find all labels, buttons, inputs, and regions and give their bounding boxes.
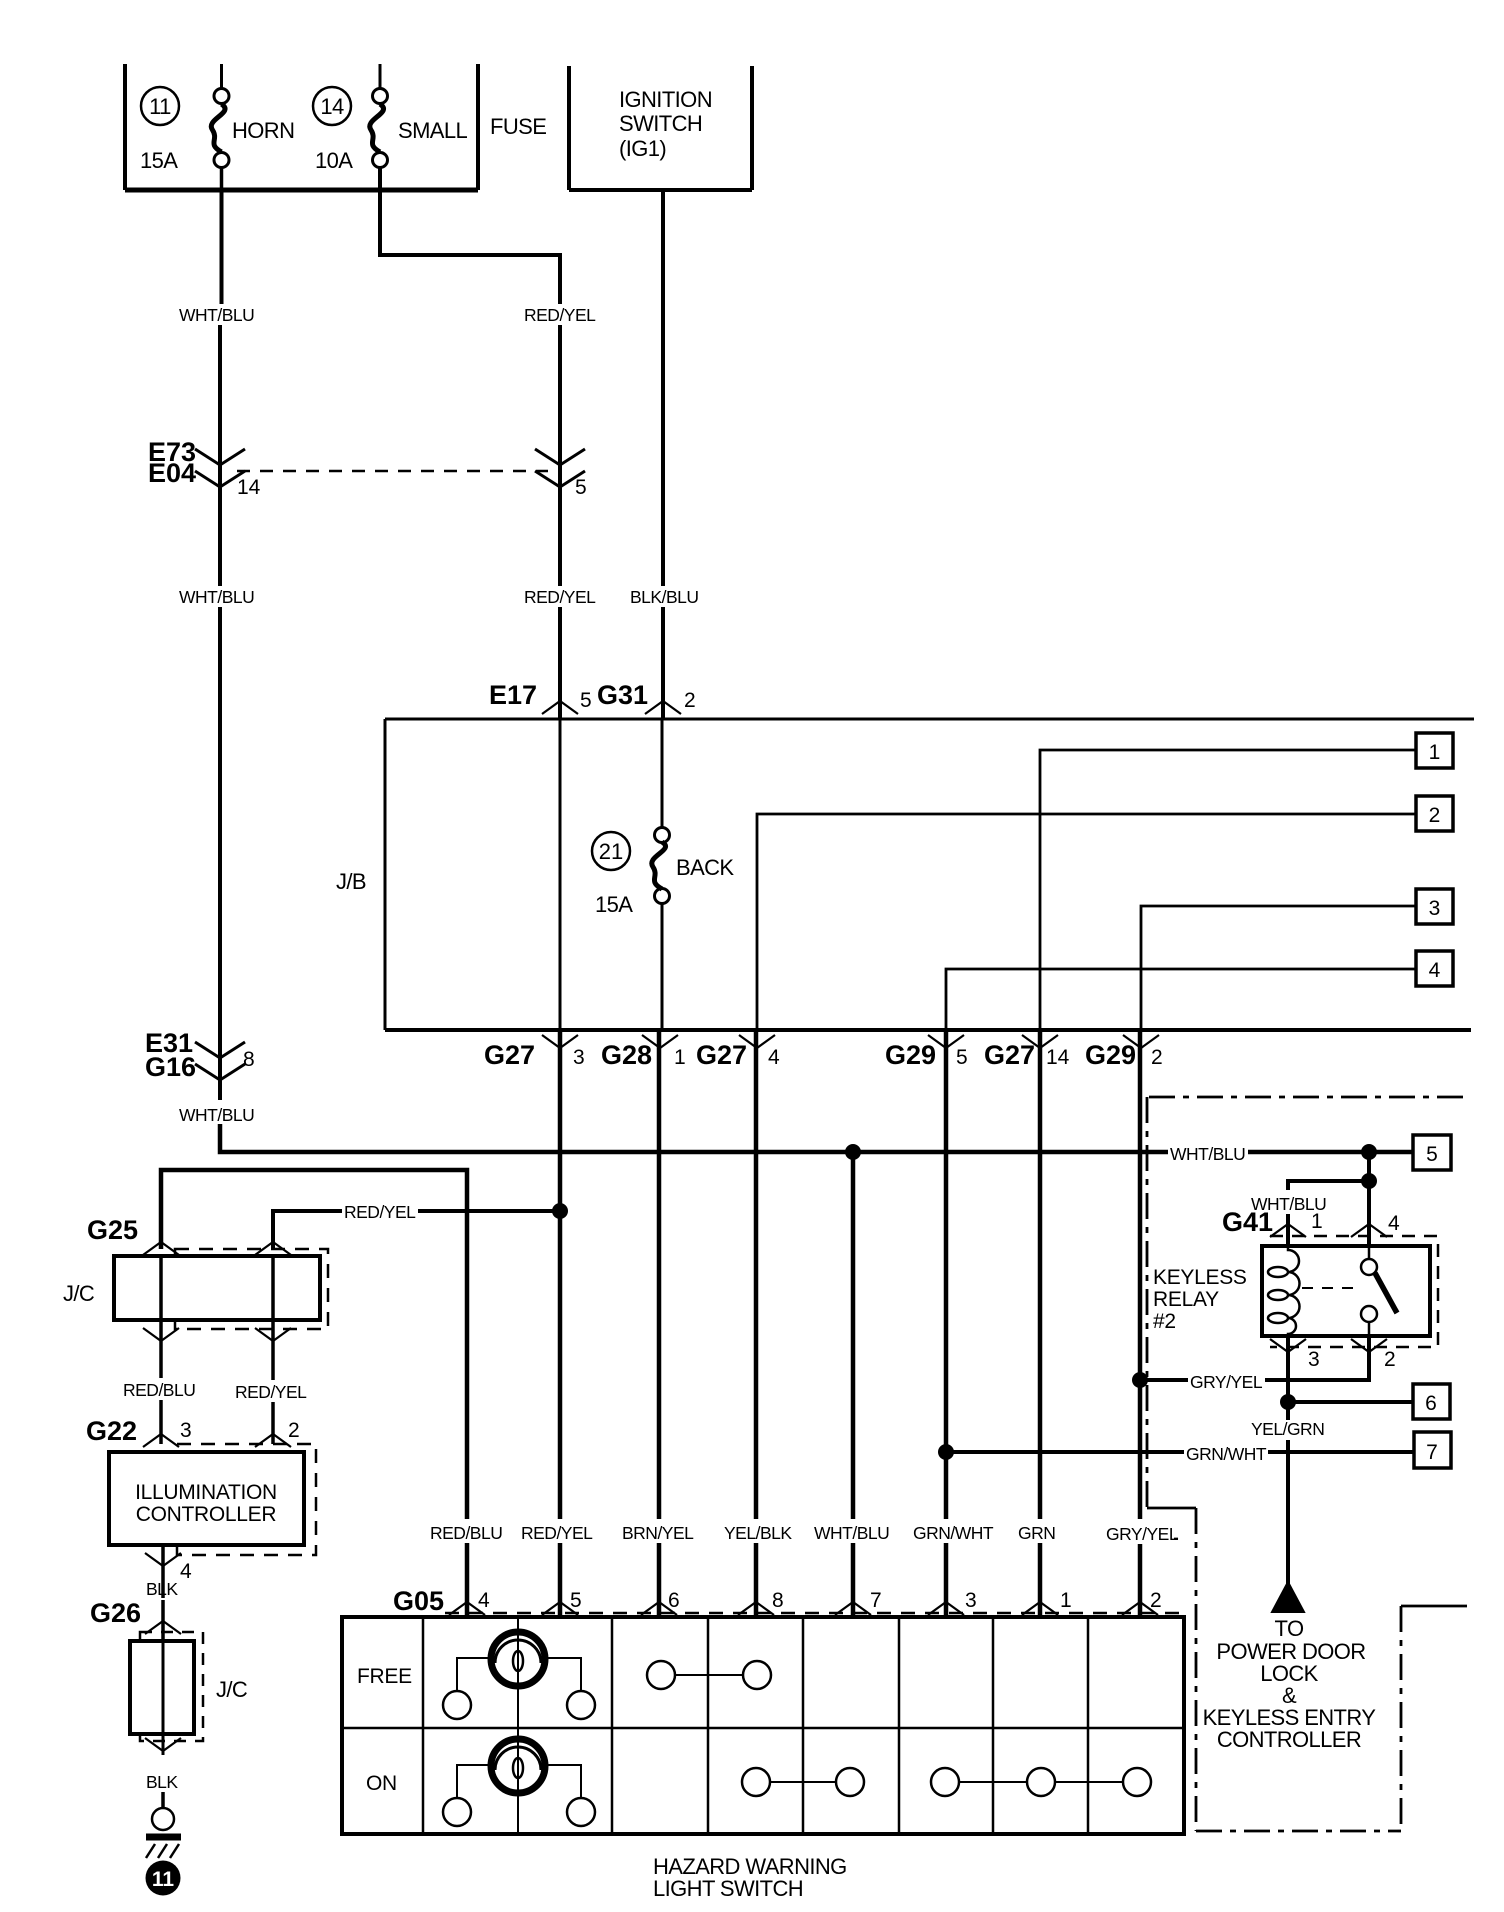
dashed boundary power-door region right — [1400, 1606, 1403, 1831]
svg-text:ON: ON — [366, 1772, 397, 1795]
connector G05 pin 4 chevron — [449, 1602, 485, 1615]
connector G31 chevron — [645, 701, 681, 714]
svg-text:RED/BLU: RED/BLU — [430, 1523, 502, 1543]
svg-text:SWITCH: SWITCH — [619, 111, 702, 136]
G26 J/C dashed box — [140, 1632, 203, 1741]
svg-text:GRY/YEL: GRY/YEL — [1106, 1524, 1179, 1544]
svg-text:G28: G28 — [601, 1040, 652, 1070]
wire RED/YEL J/B to G05 pin 5 — [558, 1030, 563, 1617]
svg-text:10A: 10A — [315, 148, 353, 173]
SECTION-LEFT — [560, 1030, 1140, 1617]
G05 column divider 7 — [1087, 1617, 1090, 1834]
svg-text:BLK: BLK — [146, 1579, 178, 1599]
G25 J/C dashed box — [175, 1249, 328, 1329]
svg-text:11: 11 — [149, 94, 171, 119]
wire loop to G25 J/C and G05 pin 4 — [161, 1170, 467, 1617]
svg-text:7: 7 — [870, 1589, 882, 1612]
svg-text:1: 1 — [1429, 741, 1441, 764]
J/B box top edge — [385, 718, 1474, 721]
SECTION-G05 — [1147, 1097, 1467, 1831]
svg-text:2: 2 — [684, 689, 696, 712]
page reference circled 11 (filled) — [146, 1861, 181, 1896]
label TO POWER DOOR LOCK & KEYLESS ENTRY CONTROLLER — [1203, 1616, 1377, 1752]
svg-text:GRN/WHT: GRN/WHT — [913, 1523, 994, 1543]
connector G27 pin 3 chevron — [542, 1035, 578, 1048]
svg-text:TO: TO — [1275, 1616, 1304, 1641]
svg-text:11: 11 — [152, 1868, 175, 1891]
svg-text:15A: 15A — [595, 892, 633, 917]
connector G29 pin 2 chevron — [1123, 1035, 1159, 1048]
connector G41 pin 2 chevron — [1351, 1339, 1387, 1352]
svg-text:BACK: BACK — [676, 855, 734, 880]
svg-text:G16: G16 — [145, 1052, 196, 1082]
svg-text:IGNITION: IGNITION — [619, 87, 712, 112]
svg-text:J/C: J/C — [216, 1677, 248, 1702]
wire GRN J/B to G05 pin 1 — [1038, 1030, 1043, 1617]
connector G25 chevron left — [143, 1242, 179, 1255]
wire RED/YEL branch to G25 J/C — [273, 1211, 560, 1249]
terminal box 7 — [1414, 1432, 1451, 1468]
label GRN/WHT (branch) — [1184, 1440, 1268, 1464]
svg-text:3: 3 — [965, 1589, 977, 1612]
terminal box 1 — [1416, 733, 1453, 768]
dashed boundary keyless region left — [1146, 1097, 1149, 1508]
wire to relay pin 4 — [1367, 1181, 1371, 1246]
svg-text:3: 3 — [180, 1419, 192, 1442]
G05 column divider 2 — [611, 1617, 614, 1834]
fuse box right edge — [476, 64, 480, 190]
svg-text:RED/YEL: RED/YEL — [524, 305, 596, 325]
label YEL/BLK (pin 8 wire) — [722, 1519, 798, 1543]
svg-text:G27: G27 — [984, 1040, 1035, 1070]
connector G41 pin 4 chevron — [1351, 1224, 1387, 1237]
switch contact FREE 6-8 — [647, 1661, 675, 1689]
label GRY/YEL (relay branch) — [1188, 1368, 1265, 1392]
svg-text:G31: G31 — [597, 680, 648, 710]
G25 J/C solid box — [114, 1256, 320, 1320]
connector G29 pin 5 chevron — [928, 1035, 964, 1048]
svg-text:FUSE: FUSE — [490, 114, 546, 139]
connector E73/E04 double chevron on WHT/BLU — [195, 449, 245, 487]
svg-text:G29: G29 — [885, 1040, 936, 1070]
svg-text:14: 14 — [1046, 1046, 1070, 1069]
label RED/YEL (pin 5 wire) — [519, 1519, 596, 1543]
svg-text:BRN/YEL: BRN/YEL — [622, 1523, 694, 1543]
svg-text:GRN: GRN — [1018, 1523, 1055, 1543]
terminal box 6 — [1413, 1384, 1450, 1419]
G05 row divider — [342, 1727, 1184, 1730]
wire inside J/B to terminal 1 — [1040, 750, 1416, 1030]
svg-text:CONTROLLER: CONTROLLER — [136, 1503, 277, 1526]
junction dot RED/YEL branch — [552, 1203, 568, 1219]
connector E17 chevron — [542, 701, 578, 714]
label RED/BLU (pin 4 wire) — [428, 1519, 506, 1543]
hazard switch G05 outer box — [342, 1617, 1184, 1834]
wire inside J/B to terminal 4 — [946, 969, 1416, 1030]
svg-text:YEL/GRN: YEL/GRN — [1251, 1419, 1324, 1439]
illumination controller solid box — [109, 1452, 304, 1545]
label GRY/YEL (pin 2 wire) — [1104, 1519, 1180, 1543]
G26 J/C solid box — [130, 1641, 194, 1734]
dashed boundary power-door region bottom — [1196, 1830, 1401, 1833]
svg-text:WHT/BLU: WHT/BLU — [814, 1523, 889, 1543]
wire from fuse 11 through box bottom — [220, 167, 224, 190]
label WHT/BLU (to terminal 5) — [1168, 1140, 1248, 1164]
svg-text:2: 2 — [1151, 1046, 1163, 1069]
svg-text:E17: E17 — [489, 680, 537, 710]
svg-text:G26: G26 — [90, 1598, 141, 1628]
circled 21 — [592, 832, 630, 870]
wire BLK to ground — [161, 1792, 165, 1808]
SECTION-TOP — [385, 719, 1474, 1030]
svg-text:3: 3 — [573, 1046, 585, 1069]
wire WHT/BLU down from junction — [1367, 1152, 1371, 1181]
circled 14 — [313, 87, 351, 125]
G05 column divider 6 — [992, 1617, 995, 1834]
chevron below G25 J/C right — [255, 1328, 291, 1341]
G05 column divider 4 — [802, 1617, 805, 1834]
wire BLK/BLU from ignition switch down — [661, 190, 665, 586]
dashed boundary keyless region top — [1149, 1096, 1467, 1099]
connector G05 pin 6 chevron — [641, 1602, 677, 1615]
svg-text:ILLUMINATION: ILLUMINATION — [135, 1481, 277, 1504]
fuse 14 SMALL 10A element — [370, 89, 388, 168]
svg-text:4: 4 — [478, 1589, 490, 1612]
connector G41 pin 3 chevron — [1270, 1339, 1306, 1352]
svg-text:2: 2 — [1150, 1589, 1162, 1612]
keyless relay dashed box — [1270, 1236, 1438, 1347]
connector G41 pin 1 chevron — [1270, 1224, 1306, 1237]
svg-text:5: 5 — [575, 476, 587, 499]
lamp circuit FREE row — [517, 1617, 519, 1728]
svg-text:G22: G22 — [86, 1416, 137, 1446]
connector G27 pin 4 chevron — [739, 1035, 775, 1048]
wire WHT/BLU down to G05 pin 7 — [851, 1152, 856, 1617]
svg-text:RED/YEL: RED/YEL — [235, 1382, 307, 1402]
svg-text:#2: #2 — [1153, 1310, 1176, 1333]
label RED/BLU — [121, 1378, 200, 1400]
wire BLK below illumination controller — [161, 1545, 165, 1598]
svg-text:5: 5 — [1426, 1143, 1438, 1166]
svg-text:G25: G25 — [87, 1215, 138, 1245]
chevron below G26 J/C — [145, 1738, 181, 1751]
connector G28 pin 1 chevron — [642, 1035, 678, 1048]
connector E31/G16 double chevron — [195, 1042, 245, 1080]
svg-text:CONTROLLER: CONTROLLER — [1217, 1727, 1361, 1752]
connector G05 pin 7 chevron — [835, 1602, 871, 1615]
svg-text:21: 21 — [599, 839, 623, 864]
svg-text:GRN/WHT: GRN/WHT — [1186, 1444, 1267, 1464]
illumination controller dashed box — [177, 1444, 316, 1555]
label WHT/BLU (relay) — [1249, 1190, 1329, 1214]
wire YEL/GRN down to arrow — [1286, 1440, 1290, 1584]
dashed boundary power-door region left — [1195, 1508, 1198, 1831]
dashed line along G05 top — [445, 1612, 1184, 1615]
fuse 11 HORN 15A element — [211, 89, 229, 168]
svg-text:E04: E04 — [148, 458, 196, 488]
svg-text:(IG1): (IG1) — [619, 136, 666, 161]
wire stub above fuse 14 — [379, 64, 382, 89]
connector G05 pin 5 chevron — [542, 1602, 578, 1615]
svg-text:YEL/BLK: YEL/BLK — [724, 1523, 792, 1543]
G05 column divider 5 — [898, 1617, 901, 1834]
lamp circuit ON row — [517, 1728, 519, 1834]
connector G05 pin 2 chevron — [1122, 1602, 1158, 1615]
svg-text:8: 8 — [772, 1589, 784, 1612]
wire through G26 J/C — [162, 1641, 165, 1755]
dashed boundary step — [1147, 1507, 1196, 1510]
svg-text:SMALL: SMALL — [398, 118, 468, 143]
svg-text:4: 4 — [1429, 959, 1441, 982]
label BRN/YEL (pin 6 wire) — [620, 1519, 697, 1543]
junction dot GRN/WHT — [938, 1444, 954, 1460]
svg-text:J/B: J/B — [336, 869, 366, 894]
svg-text:G27: G27 — [484, 1040, 535, 1070]
svg-text:4: 4 — [180, 1560, 192, 1583]
wire GRN/WHT to terminal 7 — [946, 1450, 1414, 1454]
arrow to power door lock — [1272, 1582, 1304, 1612]
dashed connector line E73/E04 — [237, 470, 548, 473]
svg-text:RED/YEL: RED/YEL — [524, 587, 596, 607]
wire BLK/BLU into fuse 21 — [661, 719, 664, 828]
fuse 21 BACK 15A element — [655, 828, 670, 843]
wire to terminal 6 — [1288, 1400, 1413, 1404]
wire below fuse 21 — [661, 903, 664, 1030]
junction dot WHT/BLU at terminal 5 — [1361, 1144, 1377, 1160]
label RED/YEL — [233, 1380, 311, 1402]
svg-text:7: 7 — [1426, 1441, 1438, 1464]
wire stub above fuse 11 — [220, 64, 223, 89]
terminal box 2 — [1416, 796, 1453, 831]
label WHT/BLU (pin 7 wire) — [812, 1519, 890, 1543]
wire relay pin 2 to GRY/YEL — [1140, 1336, 1369, 1380]
svg-text:4: 4 — [1388, 1212, 1400, 1235]
chevron below illumination controller — [145, 1553, 181, 1566]
wire YEL/BLK J/B to G05 pin 8 — [754, 1030, 759, 1617]
junction dot GRY/YEL — [1132, 1372, 1148, 1388]
connector G05 pin 1 chevron — [1022, 1602, 1058, 1615]
connector E73/E04 double chevron on RED/YEL — [535, 449, 585, 487]
svg-text:8: 8 — [243, 1048, 255, 1071]
wire relay pin 3 down — [1286, 1336, 1290, 1420]
svg-text:G27: G27 — [696, 1040, 747, 1070]
switch contact ON 8-7 — [742, 1768, 770, 1796]
svg-text:RED/YEL: RED/YEL — [344, 1202, 416, 1222]
connector G25 chevron right — [255, 1242, 291, 1255]
svg-text:3: 3 — [1429, 897, 1441, 920]
label GRN/WHT (pin 3 wire) — [911, 1519, 994, 1543]
lamp ON — [491, 1739, 545, 1793]
chevron below G25 J/C left — [143, 1328, 179, 1341]
svg-text:RED/BLU: RED/BLU — [123, 1380, 195, 1400]
switch contact ON 3-1-2 — [931, 1768, 959, 1796]
wire GRN/WHT J/B to G05 pin 3 — [944, 1030, 949, 1617]
svg-text:2: 2 — [1384, 1348, 1396, 1371]
wire to relay pin 1 — [1288, 1181, 1369, 1246]
J/B box bottom edge — [385, 1028, 1471, 1032]
connector G22 chevron right — [255, 1434, 291, 1447]
lamp FREE — [491, 1632, 545, 1686]
wire RED/YEL through G25 J/C down to G22 — [271, 1256, 275, 1444]
boundary power-door region top right — [1401, 1605, 1467, 1608]
svg-text:2: 2 — [288, 1419, 300, 1442]
svg-text:14: 14 — [237, 476, 261, 499]
svg-text:5: 5 — [580, 689, 592, 712]
G05 column divider 1 — [422, 1617, 425, 1834]
svg-text:5: 5 — [570, 1589, 582, 1612]
ignition switch box — [567, 66, 571, 190]
label GRY/YEL (to G05 pin 2) — [1106, 1520, 1179, 1544]
wire RED/BLU through G25 J/C down to G22 — [159, 1256, 163, 1444]
svg-text:14: 14 — [320, 94, 344, 119]
svg-text:6: 6 — [668, 1589, 680, 1612]
wire RED/YEL from fuse 14 down with corner to x=560 — [380, 167, 560, 304]
svg-text:1: 1 — [1060, 1589, 1072, 1612]
svg-text:4: 4 — [768, 1046, 780, 1069]
svg-text:RED/YEL: RED/YEL — [521, 1523, 593, 1543]
connector G05 pin 8 chevron — [738, 1602, 774, 1615]
svg-text:G05: G05 — [393, 1586, 444, 1616]
svg-text:2: 2 — [1429, 804, 1441, 827]
svg-text:J/C: J/C — [63, 1281, 95, 1306]
circled 11 — [141, 87, 179, 125]
svg-text:5: 5 — [956, 1046, 968, 1069]
svg-text:BLK: BLK — [146, 1772, 178, 1792]
wire WHT/BLU corner to horizontal run — [220, 1124, 1412, 1152]
svg-text:WHT/BLU: WHT/BLU — [1170, 1144, 1245, 1164]
connector G22 chevron left — [143, 1434, 179, 1447]
junction dot relay feed — [1361, 1173, 1377, 1189]
fuse box bottom edge — [125, 188, 478, 193]
svg-text:GRY/YEL: GRY/YEL — [1190, 1372, 1263, 1392]
svg-text:WHT/BLU: WHT/BLU — [179, 1105, 254, 1125]
label RED/YEL on branch — [342, 1198, 418, 1222]
svg-text:BLK/BLU: BLK/BLU — [630, 587, 698, 607]
relay coil — [1268, 1246, 1300, 1336]
svg-text:LIGHT SWITCH: LIGHT SWITCH — [653, 1876, 803, 1901]
terminal box 4 — [1416, 951, 1453, 986]
svg-text:FREE: FREE — [357, 1665, 412, 1688]
fuse box (top left) left edge — [123, 64, 127, 190]
keyless relay solid box — [1262, 1246, 1430, 1336]
wire GRY/YEL J/B to G05 pin 2 — [1138, 1030, 1143, 1617]
wire into G26 J/C — [161, 1600, 165, 1641]
connector G05 pin 3 chevron — [928, 1602, 964, 1615]
svg-text:6: 6 — [1425, 1392, 1437, 1415]
svg-text:15A: 15A — [140, 148, 178, 173]
wire inside J/B to terminal 3 — [1141, 906, 1416, 1030]
svg-text:G29: G29 — [1085, 1040, 1136, 1070]
wire WHT/BLU from fuse 11 down — [220, 190, 224, 304]
junction dot WHT/BLU to G05 pin 7 — [845, 1144, 861, 1160]
svg-text:RELAY: RELAY — [1153, 1288, 1219, 1311]
label GRN (pin 1 wire) — [1016, 1519, 1058, 1543]
svg-text:WHT/BLU: WHT/BLU — [179, 305, 254, 325]
junction dot YEL/GRN — [1280, 1394, 1296, 1410]
svg-text:1: 1 — [1311, 1210, 1323, 1233]
connector G26 chevron — [145, 1621, 181, 1634]
wire RED/YEL inside J/B — [559, 719, 562, 1030]
wire BRN/YEL J/B to G05 pin 6 — [657, 1030, 662, 1617]
svg-text:KEYLESS: KEYLESS — [1153, 1266, 1247, 1289]
relay switch contacts — [1302, 1246, 1397, 1336]
terminal box 3 — [1416, 889, 1453, 924]
wire inside J/B to terminal 2 — [757, 814, 1416, 1030]
svg-text:G41: G41 — [1222, 1207, 1273, 1237]
J/B box left edge — [384, 719, 387, 1030]
svg-text:1: 1 — [674, 1046, 686, 1069]
svg-text:WHT/BLU: WHT/BLU — [179, 587, 254, 607]
svg-text:3: 3 — [1308, 1348, 1320, 1371]
G05 column divider 3 — [707, 1617, 710, 1834]
ground symbol — [146, 1808, 181, 1858]
terminal box 5 — [1413, 1135, 1451, 1170]
connector G27 pin 14 chevron — [1022, 1035, 1058, 1048]
svg-text:HORN: HORN — [232, 118, 294, 143]
